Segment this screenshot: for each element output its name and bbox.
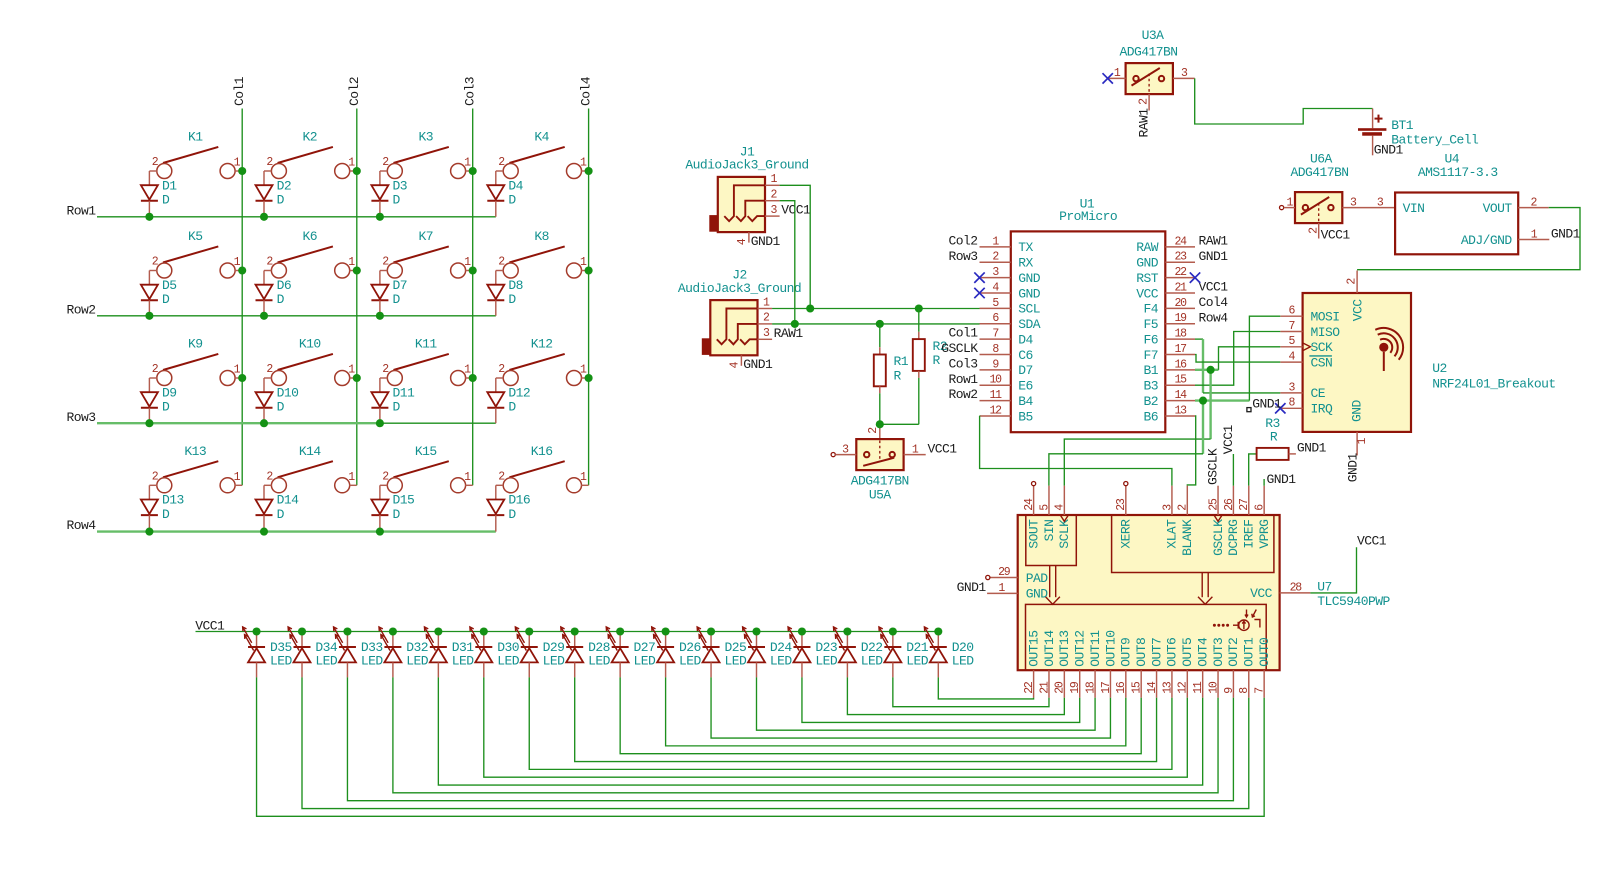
svg-text:D: D bbox=[393, 400, 401, 415]
svg-text:D: D bbox=[508, 193, 516, 208]
junction bbox=[469, 266, 477, 274]
led D29 bbox=[515, 627, 565, 678]
switch K10 bbox=[264, 337, 357, 386]
junction bbox=[238, 374, 246, 382]
svg-text:Row4: Row4 bbox=[1199, 310, 1229, 325]
svg-text:Row2: Row2 bbox=[67, 302, 96, 317]
junction bbox=[662, 627, 670, 635]
led D28 bbox=[561, 627, 611, 678]
svg-text:VCC: VCC bbox=[1136, 286, 1159, 301]
junction bbox=[707, 627, 715, 635]
wire Col1 bbox=[241, 109, 243, 486]
svg-text:D6: D6 bbox=[277, 278, 292, 293]
switch K16 bbox=[496, 444, 589, 493]
wire Col4 bbox=[588, 109, 590, 486]
svg-text:18: 18 bbox=[1174, 328, 1187, 341]
svg-text:LED: LED bbox=[406, 654, 429, 669]
diode D3 bbox=[371, 171, 407, 217]
svg-text:D: D bbox=[393, 292, 401, 307]
svg-text:24: 24 bbox=[1023, 498, 1036, 511]
led D21 bbox=[879, 627, 929, 678]
wire D31-OUT4 bbox=[438, 677, 1202, 785]
svg-text:28: 28 bbox=[1290, 581, 1303, 594]
diode D16 bbox=[487, 485, 530, 531]
svg-text:SDA: SDA bbox=[1018, 317, 1041, 332]
svg-text:SIN: SIN bbox=[1042, 520, 1057, 542]
svg-text:K8: K8 bbox=[534, 229, 549, 244]
svg-text:B4: B4 bbox=[1018, 394, 1033, 409]
svg-text:10: 10 bbox=[1207, 681, 1220, 694]
svg-text:20: 20 bbox=[1174, 297, 1187, 310]
switch K14 bbox=[264, 444, 357, 493]
led D30 bbox=[470, 627, 520, 678]
svg-text:D: D bbox=[277, 292, 285, 307]
no-connect bbox=[1275, 403, 1285, 413]
wire bbox=[772, 308, 810, 310]
svg-text:19: 19 bbox=[1174, 312, 1187, 325]
svg-text:RAW1: RAW1 bbox=[774, 326, 804, 341]
svg-text:ProMicro: ProMicro bbox=[1059, 209, 1117, 224]
junction bbox=[798, 627, 806, 635]
svg-text:RST: RST bbox=[1136, 271, 1159, 286]
diode D4 bbox=[487, 171, 523, 217]
current source icon bbox=[1213, 624, 1216, 627]
led D25 bbox=[697, 627, 747, 678]
wire D21-OUT14 bbox=[893, 677, 1049, 706]
svg-text:PAD: PAD bbox=[1026, 571, 1049, 586]
wire D23-OUT12 bbox=[802, 677, 1080, 722]
svg-text:E6: E6 bbox=[1018, 379, 1033, 394]
svg-text:GND1: GND1 bbox=[1551, 226, 1581, 241]
wire B1-SCLK bbox=[1209, 370, 1211, 439]
svg-text:27: 27 bbox=[1238, 499, 1251, 511]
svg-text:GSCLK: GSCLK bbox=[1211, 519, 1226, 556]
svg-text:Col2: Col2 bbox=[347, 77, 362, 106]
svg-text:LED: LED bbox=[770, 654, 793, 669]
svg-text:ADG417BN: ADG417BN bbox=[851, 473, 909, 488]
wire D24-OUT11 bbox=[757, 677, 1096, 730]
svg-text:VCC1: VCC1 bbox=[1357, 534, 1387, 549]
junction bbox=[934, 627, 942, 635]
battery BT1 Battery_Cell bbox=[1358, 109, 1479, 156]
svg-text:29: 29 bbox=[998, 566, 1011, 579]
junction bbox=[238, 167, 246, 175]
svg-text:K4: K4 bbox=[534, 130, 549, 145]
svg-text:K7: K7 bbox=[418, 229, 433, 244]
svg-text:XERR: XERR bbox=[1119, 519, 1134, 549]
svg-text:D9: D9 bbox=[162, 385, 177, 400]
regulator U4 AMS1117-3.3 bbox=[1377, 152, 1549, 255]
wire D29-OUT6 bbox=[529, 677, 1172, 769]
svg-text:B5: B5 bbox=[1018, 409, 1033, 424]
svg-text:GSCLK: GSCLK bbox=[941, 341, 978, 356]
svg-text:D8: D8 bbox=[508, 278, 523, 293]
diode D11 bbox=[371, 378, 415, 423]
junction bbox=[260, 312, 268, 320]
svg-text:14: 14 bbox=[1174, 389, 1187, 402]
diode D15 bbox=[371, 485, 414, 531]
junction bbox=[376, 419, 384, 427]
connector J2 AudioJack3_Ground bbox=[678, 268, 801, 369]
svg-text:OUT15: OUT15 bbox=[1026, 631, 1041, 667]
junction bbox=[469, 374, 477, 382]
wire B2-MOSI bbox=[1195, 399, 1249, 401]
wire Row1 bbox=[97, 216, 496, 218]
svg-text:ADG417BN: ADG417BN bbox=[1290, 165, 1348, 180]
wire bbox=[1357, 208, 1580, 270]
junction bbox=[585, 374, 593, 382]
junction bbox=[843, 627, 851, 635]
svg-text:MISO: MISO bbox=[1311, 325, 1341, 340]
svg-text:7: 7 bbox=[1254, 688, 1267, 694]
svg-text:IREF: IREF bbox=[1242, 520, 1257, 549]
svg-text:GND1: GND1 bbox=[957, 580, 987, 595]
svg-text:GSCLK: GSCLK bbox=[1206, 448, 1221, 485]
svg-text:VCC: VCC bbox=[1351, 299, 1366, 322]
svg-text:LED: LED bbox=[452, 654, 475, 669]
wire D33-OUT2 bbox=[347, 677, 1233, 800]
svg-text:13: 13 bbox=[1174, 404, 1187, 417]
svg-text:XLAT: XLAT bbox=[1165, 519, 1180, 549]
junction bbox=[145, 419, 153, 427]
led D27 bbox=[606, 627, 656, 678]
led D33 bbox=[334, 627, 384, 678]
svg-text:Col4: Col4 bbox=[579, 76, 594, 106]
svg-text:VCC1: VCC1 bbox=[781, 203, 811, 218]
analog switch U6A ADG417BN bbox=[1280, 152, 1364, 239]
junction bbox=[889, 627, 897, 635]
svg-text:OUT8: OUT8 bbox=[1134, 638, 1149, 667]
analog switch U3A ADG417BN bbox=[1108, 28, 1195, 111]
wire Row4 bbox=[97, 530, 496, 532]
led driver U7 TLC5940PWP bbox=[986, 482, 1311, 698]
svg-text:26: 26 bbox=[1223, 498, 1236, 511]
svg-text:Col2: Col2 bbox=[948, 234, 977, 249]
svg-text:17: 17 bbox=[1174, 343, 1186, 356]
resistor R1 bbox=[874, 324, 909, 424]
svg-text:R: R bbox=[1270, 429, 1278, 444]
svg-text:GND: GND bbox=[1026, 587, 1049, 602]
wire Row3 bbox=[97, 422, 382, 424]
wire SDA bbox=[780, 201, 980, 324]
svg-text:D12: D12 bbox=[508, 385, 530, 400]
junction bbox=[260, 419, 268, 427]
svg-text:LED: LED bbox=[679, 654, 702, 669]
svg-text:D: D bbox=[277, 507, 285, 522]
svg-text:LED: LED bbox=[952, 654, 975, 669]
junction bbox=[876, 420, 884, 428]
junction bbox=[806, 304, 814, 312]
svg-text:TLC5940PWP: TLC5940PWP bbox=[1317, 594, 1390, 609]
svg-text:GND1: GND1 bbox=[1267, 472, 1297, 487]
svg-text:D10: D10 bbox=[277, 385, 299, 400]
wire B1-SCK bbox=[1195, 369, 1219, 371]
svg-text:ADG417BN: ADG417BN bbox=[1119, 45, 1177, 60]
svg-text:20: 20 bbox=[1054, 681, 1067, 694]
svg-text:VPRG: VPRG bbox=[1257, 520, 1272, 549]
wire D27-OUT8 bbox=[620, 677, 1141, 753]
led D34 bbox=[288, 627, 338, 678]
svg-text:Battery_Cell: Battery_Cell bbox=[1391, 133, 1479, 148]
svg-text:VCC1: VCC1 bbox=[1199, 280, 1229, 295]
no-connect bbox=[974, 272, 984, 282]
svg-text:D: D bbox=[393, 193, 401, 208]
svg-text:LED: LED bbox=[270, 654, 293, 669]
junction bbox=[389, 627, 397, 635]
svg-text:23: 23 bbox=[1174, 251, 1187, 264]
no-connect bbox=[974, 288, 984, 298]
diode D10 bbox=[256, 378, 299, 423]
svg-text:BLANK: BLANK bbox=[1180, 519, 1195, 556]
svg-text:GND1: GND1 bbox=[743, 357, 773, 372]
svg-text:D: D bbox=[162, 507, 170, 522]
wire B2-SIN bbox=[1202, 401, 1204, 454]
svg-text:D: D bbox=[508, 400, 516, 415]
mcu U1 ProMicro bbox=[980, 196, 1196, 432]
junction bbox=[525, 627, 533, 635]
svg-text:LED: LED bbox=[588, 654, 611, 669]
svg-text:B6: B6 bbox=[1143, 409, 1158, 424]
svg-text:11: 11 bbox=[1192, 681, 1205, 694]
wire Row2 bbox=[97, 315, 496, 317]
junction bbox=[376, 528, 384, 536]
junction bbox=[145, 528, 153, 536]
svg-text:RAW: RAW bbox=[1136, 240, 1159, 255]
svg-text:D: D bbox=[508, 507, 516, 522]
svg-text:D7: D7 bbox=[393, 278, 408, 293]
wire VCC bbox=[1310, 547, 1356, 593]
svg-text:GND1: GND1 bbox=[1374, 143, 1404, 158]
svg-text:15: 15 bbox=[1174, 374, 1187, 387]
svg-text:GND: GND bbox=[1350, 399, 1365, 422]
svg-text:GND1: GND1 bbox=[1199, 249, 1229, 264]
svg-text:R1: R1 bbox=[894, 354, 909, 369]
svg-text:D13: D13 bbox=[162, 493, 184, 508]
svg-text:K13: K13 bbox=[184, 444, 206, 459]
svg-text:VCC1: VCC1 bbox=[928, 441, 958, 456]
svg-text:D1: D1 bbox=[162, 178, 177, 193]
svg-text:16: 16 bbox=[1174, 358, 1187, 371]
svg-text:C6: C6 bbox=[1018, 348, 1033, 363]
wire D20-OUT15 bbox=[938, 677, 1033, 699]
junction bbox=[353, 167, 361, 175]
svg-text:K16: K16 bbox=[531, 444, 553, 459]
junction bbox=[616, 627, 624, 635]
svg-text:OUT12: OUT12 bbox=[1073, 631, 1088, 667]
wire VCC1 rail bbox=[196, 631, 939, 633]
svg-text:OUT0: OUT0 bbox=[1257, 638, 1272, 667]
wire F7-CSN bbox=[1195, 354, 1280, 362]
wire B5-XLAT bbox=[980, 416, 1172, 486]
switch K4 bbox=[496, 130, 589, 179]
diode D9 bbox=[141, 378, 177, 423]
svg-text:11: 11 bbox=[989, 389, 1002, 402]
svg-text:12: 12 bbox=[1177, 681, 1190, 694]
wire D26-OUT9 bbox=[666, 677, 1126, 745]
junction bbox=[343, 627, 351, 635]
svg-text:15: 15 bbox=[1131, 681, 1144, 694]
switch K3 bbox=[380, 130, 473, 179]
junction bbox=[353, 266, 361, 274]
svg-text:OUT3: OUT3 bbox=[1211, 638, 1226, 667]
svg-text:D: D bbox=[393, 507, 401, 522]
svg-text:LED: LED bbox=[815, 654, 838, 669]
switch K13 bbox=[149, 444, 242, 493]
junction bbox=[571, 627, 579, 635]
svg-text:25: 25 bbox=[1207, 498, 1220, 511]
junction bbox=[585, 167, 593, 175]
svg-text:GND: GND bbox=[1018, 271, 1041, 286]
diode D1 bbox=[141, 171, 177, 217]
svg-text:VCC: VCC bbox=[1250, 586, 1273, 601]
svg-text:GND1: GND1 bbox=[1346, 453, 1361, 483]
svg-text:Row1: Row1 bbox=[948, 372, 978, 387]
svg-text:OUT10: OUT10 bbox=[1103, 631, 1118, 667]
svg-text:LED: LED bbox=[861, 654, 884, 669]
svg-text:K10: K10 bbox=[299, 337, 321, 352]
svg-text:22: 22 bbox=[1174, 266, 1187, 279]
diode D12 bbox=[487, 378, 530, 423]
svg-text:K9: K9 bbox=[188, 337, 203, 352]
svg-text:OUT2: OUT2 bbox=[1226, 638, 1241, 667]
switch K8 bbox=[496, 229, 589, 278]
wire bbox=[772, 323, 795, 325]
svg-text:NRF24L01_Breakout: NRF24L01_Breakout bbox=[1432, 377, 1555, 392]
svg-text:R: R bbox=[894, 369, 902, 384]
svg-text:F4: F4 bbox=[1143, 302, 1158, 317]
junction bbox=[238, 266, 246, 274]
rf module U2 NRF24L01_Breakout bbox=[1280, 271, 1555, 456]
svg-text:VCC1: VCC1 bbox=[1221, 424, 1236, 454]
switch K7 bbox=[380, 229, 473, 278]
wire IREF bbox=[1249, 454, 1257, 486]
svg-text:AMS1117-3.3: AMS1117-3.3 bbox=[1418, 165, 1498, 180]
svg-text:K14: K14 bbox=[299, 444, 322, 459]
svg-text:D16: D16 bbox=[508, 493, 530, 508]
svg-text:LED: LED bbox=[315, 654, 338, 669]
svg-text:Col4: Col4 bbox=[1199, 295, 1229, 310]
svg-text:Col3: Col3 bbox=[948, 356, 977, 371]
svg-text:ADJ/GND: ADJ/GND bbox=[1461, 233, 1513, 248]
wire SCL bbox=[780, 185, 980, 308]
svg-text:D: D bbox=[162, 193, 170, 208]
switch K6 bbox=[264, 229, 357, 278]
junction bbox=[353, 374, 361, 382]
junction bbox=[376, 213, 384, 221]
svg-text:GND1: GND1 bbox=[751, 234, 781, 249]
wire B3-MISO bbox=[1195, 332, 1280, 386]
led D23 bbox=[788, 627, 838, 678]
junction bbox=[252, 627, 260, 635]
wire VPRG bbox=[1263, 479, 1265, 486]
antenna icon bbox=[1379, 343, 1388, 352]
svg-text:R: R bbox=[933, 353, 941, 368]
svg-text:GND: GND bbox=[1136, 256, 1159, 271]
diode D7 bbox=[371, 271, 407, 316]
svg-text:D7: D7 bbox=[1018, 363, 1033, 378]
svg-text:D: D bbox=[277, 400, 285, 415]
svg-text:AudioJack3_Ground: AudioJack3_Ground bbox=[685, 158, 808, 173]
svg-text:SOUT: SOUT bbox=[1026, 519, 1041, 549]
resistor R3 bbox=[1257, 416, 1296, 460]
svg-text:U5A: U5A bbox=[869, 488, 892, 503]
svg-text:OUT5: OUT5 bbox=[1180, 638, 1195, 667]
switch K1 bbox=[149, 130, 242, 179]
no-connect bbox=[1103, 73, 1113, 83]
svg-text:F5: F5 bbox=[1143, 317, 1158, 332]
svg-text:OUT6: OUT6 bbox=[1165, 638, 1180, 667]
switch K9 bbox=[149, 337, 242, 386]
svg-text:D: D bbox=[162, 400, 170, 415]
svg-text:D4: D4 bbox=[508, 178, 523, 193]
switch K15 bbox=[380, 444, 473, 493]
wire D25-OUT10 bbox=[711, 677, 1110, 738]
svg-text:21: 21 bbox=[1174, 281, 1187, 294]
connector J1 AudioJack3_Ground bbox=[685, 145, 808, 246]
svg-text:RAW1: RAW1 bbox=[1199, 234, 1229, 249]
wire bbox=[1364, 207, 1396, 209]
svg-text:MOSI: MOSI bbox=[1311, 310, 1340, 325]
svg-text:D: D bbox=[508, 292, 516, 307]
svg-text:D2: D2 bbox=[277, 178, 292, 193]
svg-text:24: 24 bbox=[1174, 235, 1187, 248]
switch K2 bbox=[264, 130, 357, 179]
led D31 bbox=[424, 627, 474, 678]
svg-text:VCC1: VCC1 bbox=[1321, 227, 1351, 242]
svg-text:21: 21 bbox=[1038, 681, 1051, 694]
switch K12 bbox=[496, 337, 589, 386]
junction bbox=[145, 312, 153, 320]
svg-text:K1: K1 bbox=[188, 130, 203, 145]
svg-text:TX: TX bbox=[1018, 240, 1033, 255]
svg-text:Row3: Row3 bbox=[67, 410, 96, 425]
svg-text:SCL: SCL bbox=[1018, 302, 1040, 317]
svg-text:F6: F6 bbox=[1143, 332, 1158, 347]
svg-text:B3: B3 bbox=[1143, 379, 1158, 394]
svg-text:VIN: VIN bbox=[1403, 201, 1425, 216]
wire D22-OUT13 bbox=[847, 677, 1064, 714]
svg-text:D15: D15 bbox=[393, 493, 415, 508]
svg-text:VCC1: VCC1 bbox=[195, 618, 225, 633]
svg-text:U2: U2 bbox=[1432, 361, 1447, 376]
junction bbox=[1207, 366, 1215, 374]
svg-text:23: 23 bbox=[1115, 498, 1128, 511]
junction bbox=[298, 627, 306, 635]
wire D28-OUT7 bbox=[575, 677, 1157, 761]
wire Col3 bbox=[472, 109, 474, 486]
wire D32-OUT3 bbox=[393, 677, 1218, 792]
svg-text:K3: K3 bbox=[418, 130, 433, 145]
junction bbox=[876, 320, 884, 328]
label GND1 bbox=[1247, 408, 1251, 412]
svg-text:Row2: Row2 bbox=[948, 387, 977, 402]
led D24 bbox=[743, 627, 793, 678]
diode D8 bbox=[487, 271, 523, 316]
junction bbox=[260, 213, 268, 221]
diode D14 bbox=[256, 485, 300, 531]
junction bbox=[791, 320, 799, 328]
svg-text:Col1: Col1 bbox=[232, 76, 247, 106]
svg-text:7: 7 bbox=[992, 328, 998, 341]
wire D30-OUT5 bbox=[484, 677, 1188, 777]
wire F6-CE bbox=[1195, 338, 1203, 340]
svg-text:CSN: CSN bbox=[1311, 355, 1333, 370]
svg-text:U3A: U3A bbox=[1142, 28, 1165, 43]
svg-text:D: D bbox=[277, 193, 285, 208]
svg-text:OUT9: OUT9 bbox=[1119, 638, 1134, 667]
svg-text:D11: D11 bbox=[393, 385, 416, 400]
wire B6-BLANK bbox=[1187, 416, 1195, 486]
